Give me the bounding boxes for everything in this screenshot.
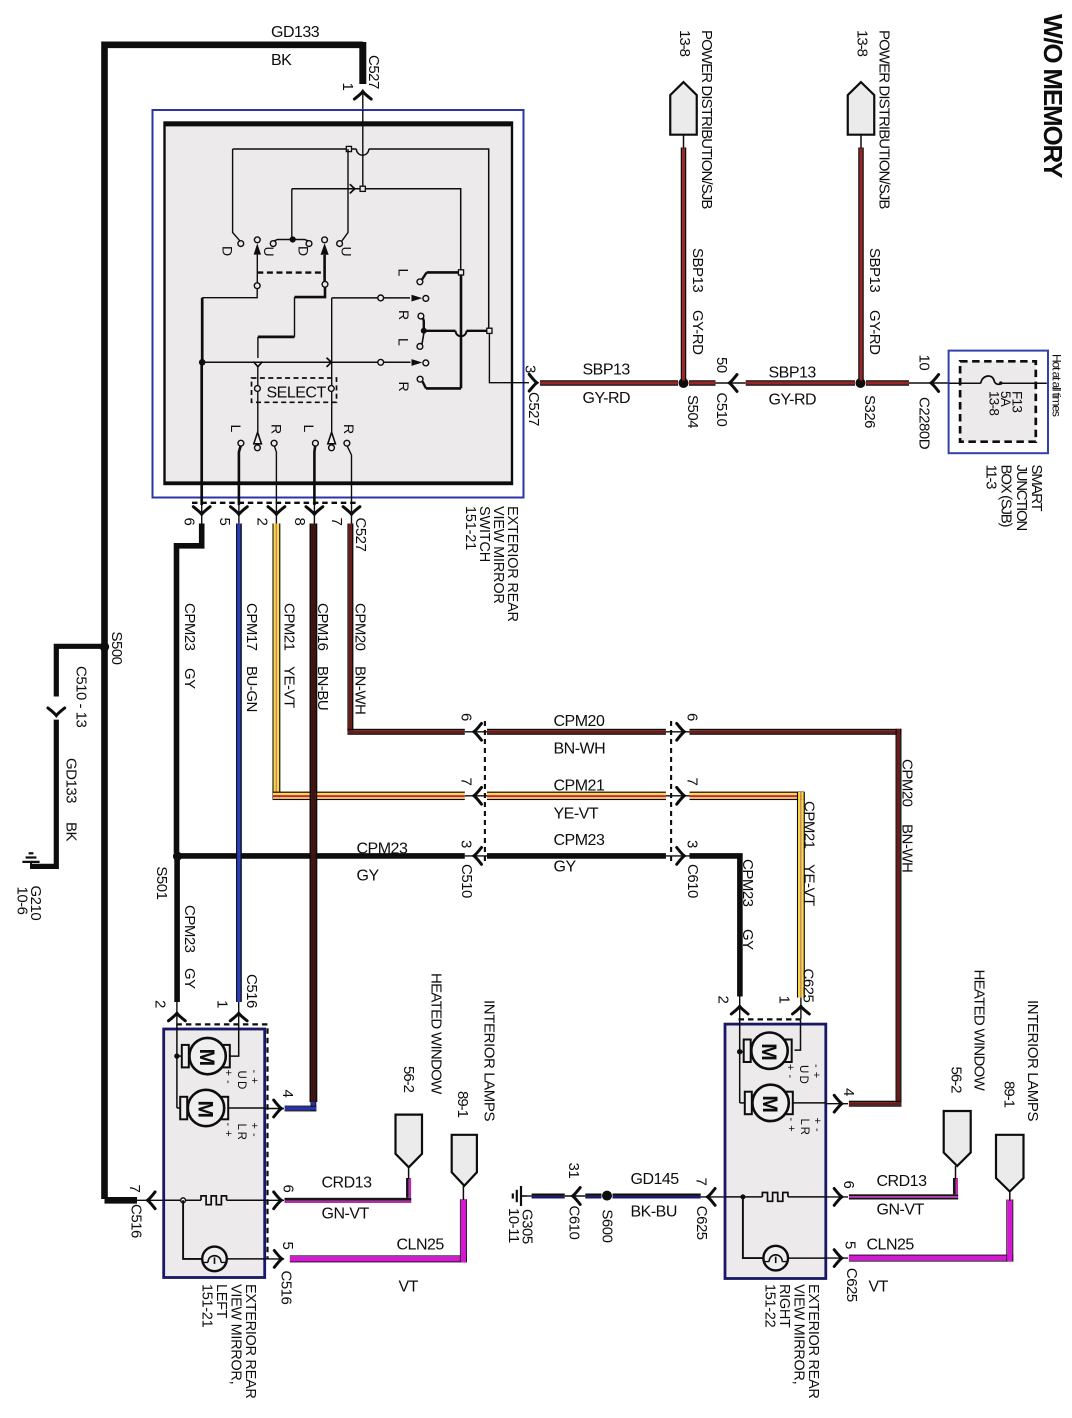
svg-text:S504: S504 (684, 395, 701, 428)
SELECT dashed box (252, 378, 337, 402)
svg-text:13-8: 13-8 (676, 30, 693, 57)
svg-text:CRD13: CRD13 (322, 1175, 373, 1192)
svg-text:BN-WH: BN-WH (352, 666, 369, 714)
svg-text:INTERIOR LAMPS: INTERIOR LAMPS (1024, 1000, 1041, 1121)
wire CPM21 YE-VT horizontal (273, 792, 465, 793)
contact U of U/D switch 1 (274, 240, 310, 242)
svg-text:GN-VT: GN-VT (322, 1206, 370, 1223)
svg-text:S326: S326 (861, 395, 878, 428)
wire U/D arm 2 jog to select bus (295, 287, 326, 297)
svg-text:CPM23: CPM23 (739, 859, 756, 907)
wire SBP13 vertical from power distribution 1 (681, 148, 682, 381)
svg-text:U: U (261, 247, 277, 257)
node S326 (856, 378, 866, 388)
svg-text:4: 4 (840, 1088, 857, 1096)
wire SBP13 vertical from power distribution 2 (858, 148, 859, 381)
ground G210 (30, 862, 32, 869)
svg-text:GY-RD: GY-RD (866, 310, 883, 355)
svg-text:C510: C510 (713, 393, 730, 427)
smart junction box (SJB) (949, 351, 1048, 454)
svg-text:R: R (341, 424, 357, 434)
svg-text:5: 5 (279, 1242, 296, 1250)
movable arm U/D switch 1 (254, 237, 260, 243)
svg-text:89-1: 89-1 (454, 1091, 471, 1118)
svg-text:7: 7 (328, 518, 345, 526)
svg-text:GY-RD: GY-RD (689, 310, 706, 355)
svg-text:C625: C625 (800, 969, 817, 1003)
wire R1/L2 tie to C527-3 riser (424, 330, 456, 332)
wire CPM21 YE-VT to right mirror pin 1 (690, 792, 805, 793)
svg-text:S600: S600 (599, 1209, 616, 1242)
wire horizontal bus / R-L arm 2 (202, 361, 410, 363)
svg-text:3: 3 (522, 365, 539, 373)
svg-text:C527: C527 (365, 55, 382, 89)
svg-text:C516: C516 (243, 974, 260, 1008)
svg-text:6: 6 (458, 713, 475, 721)
wire CPM16 BN-BU (310, 524, 312, 1103)
svg-text:HEATED WINDOW: HEATED WINDOW (428, 973, 445, 1095)
svg-text:GY: GY (739, 929, 756, 950)
svg-text:BK: BK (63, 822, 80, 842)
wire GD145 BK-BU (527, 1195, 532, 1197)
svg-text:U D: U D (797, 1065, 809, 1084)
svg-text:INTERIOR LAMPS: INTERIOR LAMPS (481, 1000, 498, 1121)
svg-text:YE-VT: YE-VT (801, 864, 818, 906)
svg-text:CPM21: CPM21 (801, 801, 818, 849)
svg-text:GY: GY (554, 859, 577, 876)
svg-text:D: D (295, 246, 311, 256)
svg-text:SBP13: SBP13 (769, 365, 817, 382)
svg-text:151-21: 151-21 (198, 1284, 214, 1328)
wire top bus (D1 to U2 to C527-3 riser) (233, 148, 357, 150)
connector C527 dashed line (192, 502, 359, 504)
svg-text:GN-VT: GN-VT (877, 1202, 925, 1219)
svg-text:5: 5 (841, 1241, 858, 1249)
svg-text:+ -: + - (811, 1118, 823, 1133)
wire U/D arm 1 to bus junction (202, 289, 257, 298)
node bus junction (199, 359, 206, 366)
connector C610 pin 31 (573, 1188, 581, 1205)
dashed mechanical link U/D arms (257, 271, 324, 273)
wire second bus (U1/D2 tie to L1/R2 tie, C527-1) (291, 189, 293, 240)
bottom contacts L R L R (238, 440, 244, 446)
svg-text:CPM20: CPM20 (899, 759, 916, 807)
contact D of U/D switch 1 (233, 149, 241, 241)
wire CPM21 YE-VT vertical (272, 524, 273, 800)
svg-text:11-3: 11-3 (982, 465, 999, 490)
connector pin 6 exit right (826, 1196, 848, 1198)
svg-text:SBP13: SBP13 (583, 362, 631, 379)
svg-text:U: U (338, 247, 354, 257)
wire CPM20 BN-WH vertical from pin 7 (347, 524, 348, 732)
wire SBP13 from S326 to C510 (746, 380, 855, 381)
svg-text:+ -: + - (784, 1064, 796, 1079)
svg-text:6: 6 (181, 518, 198, 526)
svg-text:BN-WH: BN-WH (554, 741, 606, 758)
svg-text:C527: C527 (352, 518, 369, 552)
svg-text:U D: U D (235, 1071, 247, 1090)
wire CPM20 BN-WH to right mirror pin 4 (690, 729, 902, 730)
svg-text:S501: S501 (153, 866, 170, 899)
svg-text:1: 1 (776, 996, 793, 1004)
node S600 (602, 1191, 612, 1201)
svg-text:W/O MEMORY: W/O MEMORY (1038, 14, 1068, 178)
wire CPM23 GY lower to left mirror (174, 858, 180, 1002)
wire pin2 lead inside left box (176, 1024, 178, 1108)
wire CPM23 GY to right mirror pin 2 (690, 856, 740, 997)
svg-text:CRD13: CRD13 (877, 1173, 928, 1190)
connector pin 5 exit left (265, 1258, 284, 1260)
connector C510 inline (729, 375, 737, 392)
svg-text:151-22: 151-22 (761, 1284, 777, 1328)
motor U/D right (744, 1040, 751, 1063)
wire SBP13 GY-RD from switch C527-3 (540, 380, 678, 381)
svg-text:CLN25: CLN25 (397, 1237, 445, 1254)
svg-text:SELECT: SELECT (267, 385, 327, 402)
svg-text:8: 8 (291, 518, 308, 526)
node S501 (173, 852, 182, 861)
svg-text:CPM23: CPM23 (357, 841, 408, 858)
heater element left (164, 1199, 201, 1201)
wire GD133 BK main run (105, 45, 363, 1199)
connector C625 pin 7 (708, 1189, 716, 1206)
svg-text:D: D (219, 246, 235, 256)
svg-text:CPM23: CPM23 (181, 603, 198, 651)
svg-text:3: 3 (458, 840, 475, 848)
svg-text:C610: C610 (566, 1206, 583, 1240)
svg-text:BK: BK (271, 52, 292, 69)
contact R of R-L switch 1 (418, 313, 424, 319)
contact L of R-L switch 2 (417, 344, 423, 350)
svg-text:CPM20: CPM20 (554, 713, 605, 730)
wire CLN25 VT right (849, 1254, 1013, 1257)
motor U/D left (182, 1045, 189, 1068)
contact D of U/D switch 2 (306, 241, 312, 247)
svg-text:SBP13: SBP13 (866, 248, 883, 292)
node S504 (679, 378, 689, 388)
exterior rear view mirror switch box (153, 110, 524, 498)
select switch open contacts (254, 432, 262, 444)
wire CPM17 BU-GN (236, 524, 237, 1003)
wire motor L/R to pin 4 (229, 1107, 265, 1109)
wire motor L/R to pin 4 right (793, 1102, 826, 1104)
select pole 2 wire (331, 298, 333, 432)
svg-text:BU-GN: BU-GN (243, 666, 260, 712)
svg-text:10-11: 10-11 (505, 1208, 522, 1243)
svg-text:5: 5 (216, 518, 233, 526)
svg-text:GY-RD: GY-RD (583, 390, 631, 407)
wire pin1 lead inside right box (795, 1019, 801, 1050)
wire C527-1 lead into switch (362, 110, 364, 189)
connector pin 6 exit left (265, 1199, 284, 1201)
svg-text:6: 6 (840, 1181, 857, 1189)
svg-text:BN-WH: BN-WH (899, 824, 916, 872)
wire CPM16 BN-BU (over crossing runs) (310, 524, 312, 1103)
svg-text:CPM17: CPM17 (243, 603, 260, 651)
svg-text:HEATED WINDOW: HEATED WINDOW (971, 970, 988, 1092)
wire CRD13 GN-VT right (849, 1194, 958, 1196)
svg-text:GD133: GD133 (63, 758, 80, 803)
svg-text:2: 2 (254, 518, 271, 526)
svg-text:3: 3 (684, 840, 701, 848)
svg-text:+ -: + - (222, 1070, 234, 1085)
svg-text:POWER DISTRIBUTION/SJB: POWER DISTRIBUTION/SJB (876, 30, 893, 209)
svg-text:R: R (396, 310, 412, 320)
lamp right (763, 1246, 788, 1271)
heater element right (725, 1196, 762, 1198)
svg-text:C625: C625 (843, 1268, 860, 1302)
wire CPM17 BU-GN (over crossing runs) (236, 524, 237, 1003)
wire to interior lamp left (183, 1200, 202, 1259)
svg-text:56-2: 56-2 (400, 1066, 417, 1093)
contact R of R-L switch 2 (417, 376, 423, 382)
motor L/R right (745, 1092, 752, 1115)
svg-text:7: 7 (458, 778, 475, 786)
svg-text:151-21: 151-21 (462, 506, 478, 550)
connector C510-13 inline (48, 708, 65, 716)
node S500 (100, 642, 110, 652)
svg-text:BK-BU: BK-BU (631, 1204, 677, 1221)
exterior rear view mirror right box (725, 1024, 826, 1278)
connector INTERIOR LAMPS right (996, 1135, 1024, 1192)
select pole 1 wire (257, 367, 259, 432)
motor L/R left (180, 1097, 187, 1120)
svg-text:SBP13: SBP13 (689, 248, 706, 292)
wire CPM20 BN-WH horizontal (347, 729, 464, 730)
svg-text:89-1: 89-1 (1001, 1081, 1018, 1108)
contact U of U/D switch 2 (342, 149, 349, 241)
svg-text:50: 50 (713, 357, 730, 373)
svg-text:Hot at all times: Hot at all times (1050, 354, 1064, 417)
connector POWER DISTRIBUTION/SJB 2 (848, 82, 875, 135)
svg-text:56-2: 56-2 (948, 1067, 965, 1094)
svg-text:10-6: 10-6 (13, 887, 30, 915)
svg-text:YE-VT: YE-VT (554, 806, 599, 823)
svg-text:POWER DISTRIBUTION/SJB: POWER DISTRIBUTION/SJB (698, 30, 715, 209)
wire pin1 lead inside left box (229, 1024, 239, 1056)
svg-text:S500: S500 (108, 632, 125, 665)
connector POWER DISTRIBUTION/SJB 1 (670, 82, 697, 135)
svg-text:L: L (301, 425, 317, 433)
svg-text:2: 2 (715, 996, 732, 1004)
svg-text:GY: GY (357, 868, 380, 885)
svg-text:GD145: GD145 (631, 1171, 680, 1188)
movable arm R-L switch 2 (378, 359, 384, 365)
svg-text:10: 10 (916, 355, 933, 371)
svg-text:R: R (396, 382, 412, 392)
lamp left (202, 1247, 227, 1272)
wire GD133 into left mirror pin 7 (105, 1197, 138, 1204)
svg-text:31: 31 (565, 1163, 582, 1179)
svg-text:GY: GY (181, 668, 198, 689)
connector C625 dashed line (739, 1018, 801, 1020)
exterior rear view mirror left box (164, 1029, 265, 1278)
svg-text:13-8: 13-8 (854, 30, 871, 57)
wire CPM23 GY upper (177, 524, 202, 854)
svg-text:CPM23: CPM23 (554, 832, 605, 849)
svg-text:7: 7 (684, 778, 701, 786)
movable arm U/D switch 2 (bold) (322, 237, 328, 243)
wire L1/R2 tie riser (460, 275, 463, 389)
svg-text:CLN25: CLN25 (867, 1237, 915, 1254)
svg-text:6: 6 (684, 713, 701, 721)
svg-text:L: L (395, 338, 411, 346)
svg-text:7: 7 (692, 1178, 709, 1186)
svg-text:13-8: 13-8 (987, 391, 1002, 415)
pin leads to C527 bottom (200, 362, 203, 505)
svg-text:C516: C516 (277, 1271, 294, 1305)
svg-text:L R: L R (798, 1119, 810, 1135)
svg-text:L R: L R (235, 1124, 247, 1140)
connector C2280D pin 10 (931, 375, 939, 392)
wire SBP13 to C510 (689, 380, 716, 381)
svg-text:M: M (194, 1101, 217, 1119)
svg-text:2: 2 (152, 1000, 169, 1008)
svg-text:GY-RD: GY-RD (769, 392, 817, 409)
svg-text:- +: - + (785, 1118, 797, 1133)
svg-text:C527: C527 (525, 392, 542, 426)
svg-text:6: 6 (279, 1185, 296, 1193)
svg-text:M: M (757, 1043, 780, 1061)
svg-text:7: 7 (126, 1185, 143, 1193)
svg-text:4: 4 (279, 1090, 296, 1098)
svg-text:GY: GY (181, 968, 198, 989)
svg-text:C510: C510 (458, 864, 475, 898)
svg-text:C2280D: C2280D (916, 397, 933, 450)
svg-text:C610: C610 (684, 864, 701, 898)
svg-text:L: L (228, 425, 244, 433)
svg-text:CPM20: CPM20 (352, 603, 369, 651)
svg-text:CPM23: CPM23 (181, 905, 198, 953)
connector C610 dashed line (670, 721, 672, 861)
connector HEATED WINDOW left (396, 1115, 423, 1168)
svg-text:YE-VT: YE-VT (281, 666, 298, 708)
svg-text:1: 1 (339, 83, 356, 91)
svg-text:CPM21: CPM21 (281, 603, 298, 651)
wire CLN25 VT left (290, 1254, 467, 1257)
connector INTERIOR LAMPS left (452, 1135, 477, 1186)
svg-text:L: L (395, 269, 411, 277)
svg-text:- +: - + (222, 1123, 234, 1138)
svg-text:+ -: + - (248, 1123, 260, 1138)
svg-text:1: 1 (214, 1000, 231, 1008)
fuse F13 5A (949, 382, 981, 384)
svg-text:C516: C516 (128, 1204, 145, 1238)
wire CPM16 blue tail into left mirror pin 4 (311, 1102, 312, 1111)
wire pin2 lead inside right box (739, 1019, 741, 1103)
connector C516 dashed line (176, 1024, 267, 1258)
svg-text:VT: VT (869, 1279, 889, 1296)
wire SBP13 from SJB to S326 (866, 380, 909, 381)
svg-text:C510 - 13: C510 - 13 (73, 666, 90, 728)
wire GD133 branch to G210 (56, 646, 107, 696)
svg-text:M: M (195, 1049, 218, 1067)
svg-text:C625: C625 (693, 1206, 710, 1240)
svg-text:- +: - + (248, 1070, 260, 1085)
svg-text:CPM21: CPM21 (554, 778, 605, 795)
wire CRD13 GN-VT left (285, 1198, 412, 1201)
svg-text:M: M (758, 1095, 781, 1113)
connector HEATED WINDOW right (944, 1111, 971, 1166)
svg-text:- +: - + (810, 1064, 822, 1079)
contact L of R-L switch 1 (417, 279, 423, 285)
ground G305 (521, 1195, 527, 1197)
svg-text:R: R (268, 424, 284, 434)
svg-text:VT: VT (399, 1279, 419, 1296)
wire C527-3 exit (489, 333, 529, 382)
connector C510 dashed line (484, 721, 486, 861)
wire to interior lamp right (743, 1197, 764, 1258)
svg-text:GD133: GD133 (271, 24, 320, 41)
connector pin 5 exit right (826, 1257, 848, 1259)
wire CPM23 GY horizontal (178, 853, 465, 859)
wire R-L arm 1 (332, 297, 410, 299)
